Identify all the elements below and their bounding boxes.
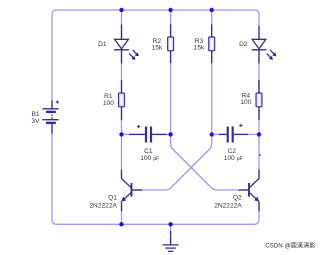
resistor R2 [168, 24, 174, 63]
resistor R1 [119, 80, 125, 121]
svg-text:3V: 3V [32, 118, 41, 125]
resistor R3 [209, 24, 215, 63]
wire top rail with left and right drops [52, 10, 259, 101]
probe mark on Q2 collector wire [259, 154, 261, 156]
wire C2 right to node [248, 133, 259, 135]
capacitor C1 [129, 125, 167, 143]
battery B1 [42, 100, 59, 133]
svg-text:100: 100 [240, 99, 251, 106]
D2 emission arrows [267, 50, 277, 60]
node C1 left / Q1 collector [119, 132, 123, 136]
node top R2 column [168, 8, 172, 12]
wire D1 cathode to R1 [121, 64, 123, 80]
LED D1 [114, 25, 129, 64]
node top D1 column [119, 8, 123, 12]
capacitor C2 [219, 124, 248, 143]
resistor R4 [256, 64, 262, 120]
svg-text:15k: 15k [194, 44, 205, 51]
svg-text:2N2222A: 2N2222A [214, 202, 242, 209]
svg-text:µF: µF [237, 156, 243, 162]
svg-text:100: 100 [140, 155, 151, 162]
svg-text:Q1: Q1 [108, 195, 117, 202]
svg-text:B1: B1 [32, 111, 40, 118]
wire C1 right to node [167, 133, 171, 135]
wire drop to R3 top [211, 10, 213, 24]
node Q1 emitter / bottom rail [119, 222, 123, 226]
svg-text:D2: D2 [239, 41, 248, 48]
D1 emission arrows [129, 50, 139, 60]
svg-text:15k: 15k [152, 44, 163, 51]
svg-text:CSDN @鹿溪清影: CSDN @鹿溪清影 [265, 241, 315, 249]
wire R4 bottom to Q2 collector [258, 120, 260, 170]
node top R3 column [210, 8, 214, 12]
wire R3 bottom to node [211, 63, 213, 134]
svg-text:100: 100 [224, 155, 235, 162]
node ground / bottom rail [168, 222, 172, 226]
wire cross-couple C2 node to Q1 base [143, 134, 212, 190]
svg-text:D1: D1 [98, 41, 107, 48]
wire ground drop [170, 224, 172, 231]
transistor Q1 [121, 170, 143, 212]
wire node to C2 left [212, 133, 219, 135]
node C1 right / R2 [168, 132, 172, 136]
svg-text:µF: µF [153, 156, 159, 162]
svg-text:100: 100 [103, 100, 114, 107]
LED D2 [252, 26, 267, 64]
wire drop to D1 anode [121, 10, 123, 25]
wire bottom rail battery to Q2 emitter [52, 134, 259, 225]
transistor Q2 [239, 170, 260, 212]
wire node to C1 left [122, 133, 130, 135]
wire cross-couple C1 node to Q2 base [171, 134, 239, 190]
svg-text:2N2222A: 2N2222A [89, 202, 117, 209]
svg-text:Q2: Q2 [233, 195, 242, 202]
wire R2 bottom to node [170, 63, 172, 134]
ground [163, 231, 179, 251]
wire Q1 emitter to bottom rail [121, 211, 123, 224]
node C2 left / R3 [210, 132, 214, 136]
node C2 right / Q2 collector [257, 132, 261, 136]
wire R1 to Q1 collector [121, 120, 123, 169]
wire drop to R2 top [170, 10, 172, 24]
